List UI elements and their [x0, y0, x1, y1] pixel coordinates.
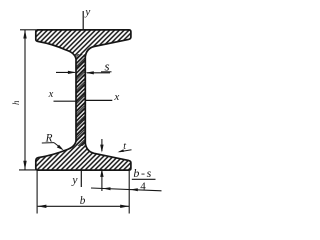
arrow at flange tip ext [130, 188, 138, 191]
b dimension extension line left [36, 171, 38, 214]
svg-text:b: b [80, 195, 86, 207]
svg-text:x: x [113, 91, 119, 103]
web dense hatch overlay [76, 54, 84, 146]
b dimension line [38, 205, 129, 207]
h dimension line [24, 30, 26, 170]
s dimension right arrow [87, 72, 110, 74]
svg-text:y: y [71, 175, 78, 187]
svg-text:b-s: b-s [133, 166, 152, 180]
t down arrow [101, 139, 103, 151]
svg-text:h: h [11, 100, 21, 105]
s dimension left arrow [56, 71, 75, 73]
arrow at t-line [103, 187, 111, 190]
b dimension extension line right [128, 171, 130, 214]
y axis (top segment) [82, 11, 84, 30]
x axis (left segment) [54, 100, 77, 102]
h top extension line [20, 29, 36, 31]
I-beam cross-section outline (hatched) [36, 30, 131, 170]
x axis (right segment) [85, 99, 112, 101]
R leader arrow [54, 143, 62, 149]
(b-s)/4 dimension line [91, 188, 162, 191]
h top arrowhead [23, 30, 26, 39]
svg-text:y: y [84, 6, 90, 18]
y axis (bottom segment) [80, 169, 82, 187]
h bottom arrowhead [23, 161, 26, 170]
b right arrowhead [120, 205, 129, 208]
svg-text:4: 4 [140, 181, 146, 193]
h bottom extension line [19, 169, 36, 171]
t up arrow (below flange) [101, 169, 103, 191]
svg-text:x: x [48, 89, 54, 100]
svg-text:s: s [105, 59, 110, 74]
b left arrowhead [37, 205, 46, 208]
